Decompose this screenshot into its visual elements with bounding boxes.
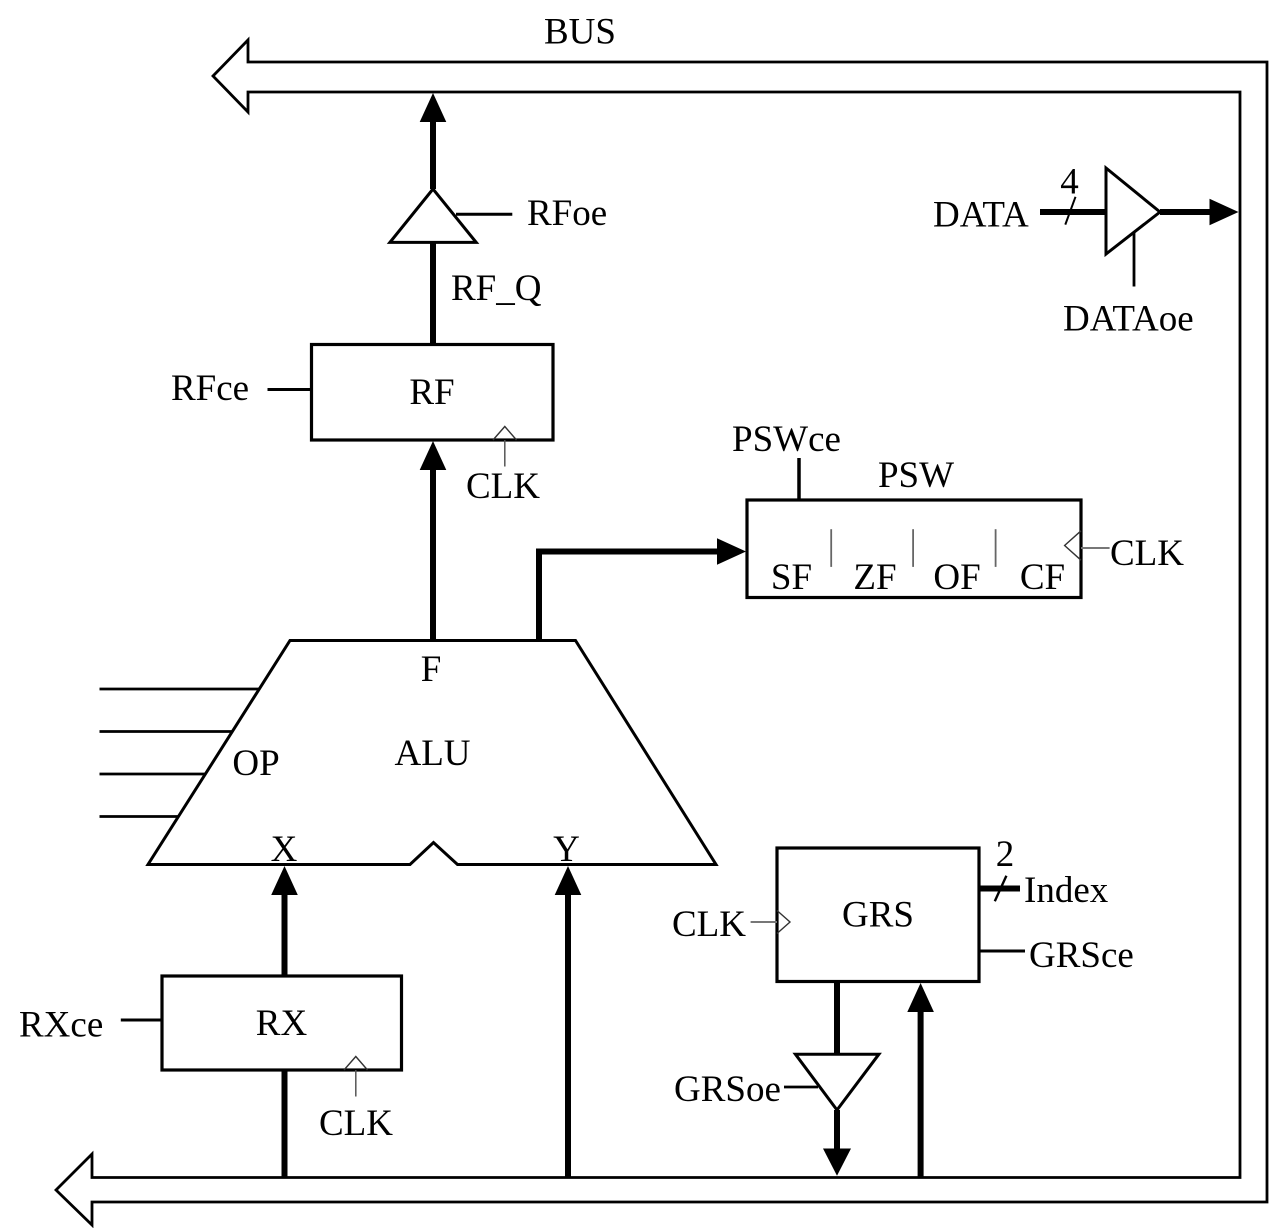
wire flags: ALU to PSW: [539, 552, 721, 641]
svg-text:RF: RF: [409, 372, 454, 413]
svg-text:RF_Q: RF_Q: [451, 268, 542, 309]
ALU trapezoid: [148, 641, 716, 865]
GRS CLK stub: [751, 921, 777, 923]
PSWce stub: [797, 458, 801, 500]
arrowhead into bus: [823, 1149, 851, 1176]
svg-text:CF: CF: [1020, 557, 1065, 598]
svg-text:CLK: CLK: [319, 1103, 393, 1144]
svg-text:RX: RX: [256, 1003, 308, 1044]
OP input line 2: [100, 730, 233, 733]
OP input line 1: [100, 688, 260, 691]
svg-text:PSW: PSW: [878, 455, 954, 496]
wire DATAoe buffer output to BUS: [1160, 209, 1212, 215]
tri-state buffer DATAoe: [1106, 168, 1160, 254]
svg-text:Index: Index: [1024, 870, 1109, 911]
register PSW: [747, 500, 1081, 598]
wire X: RX to ALU: [282, 891, 288, 976]
PSW bit divider 2: [912, 529, 914, 567]
RFce stub: [268, 388, 312, 391]
PSW clock wedge: [1065, 531, 1081, 560]
Index bus-width slash: [995, 876, 1007, 902]
svg-text:2: 2: [996, 834, 1015, 875]
svg-text:SF: SF: [771, 557, 812, 598]
svg-text:ALU: ALU: [394, 733, 470, 774]
wire Y: bus to ALU: [565, 891, 571, 1178]
svg-text:GRSoe: GRSoe: [674, 1069, 781, 1110]
tri-state buffer GRSoe: [795, 1054, 879, 1110]
RF clock wedge: [493, 427, 517, 441]
PSW bit divider 1: [830, 529, 832, 567]
svg-text:CLK: CLK: [672, 904, 746, 945]
RFoe enable stub: [456, 213, 512, 216]
arrowhead into ALU Y: [555, 866, 582, 895]
svg-text:4: 4: [1060, 162, 1079, 203]
svg-text:DATA: DATA: [933, 195, 1029, 236]
arrowhead into GRS: [907, 983, 934, 1012]
register file GRS: [777, 848, 979, 982]
GRSce stub: [979, 950, 1025, 953]
svg-text:PSWce: PSWce: [732, 419, 841, 460]
RX clock wedge: [344, 1057, 368, 1071]
DATAoe enable stub: [1133, 232, 1136, 287]
register RX: [162, 976, 402, 1070]
svg-text:F: F: [421, 649, 442, 690]
svg-text:OP: OP: [232, 743, 279, 784]
wire RF_Q: RF to buffer: [430, 242, 436, 345]
svg-text:RFce: RFce: [171, 368, 249, 409]
wire GRS output to GRSoe buffer: [834, 982, 840, 1055]
arrowhead into BUS: [420, 93, 447, 122]
svg-text:GRSce: GRSce: [1029, 935, 1134, 976]
svg-text:RXce: RXce: [19, 1005, 103, 1046]
GRS clock wedge: [777, 911, 790, 934]
svg-text:BUS: BUS: [544, 12, 616, 53]
wire RFoe buffer output to BUS: [430, 118, 436, 189]
PSW bit divider 3: [995, 529, 997, 567]
GRSoe enable stub: [784, 1086, 818, 1089]
tri-state buffer RFoe: [390, 189, 476, 242]
DATA bus-width slash: [1065, 197, 1075, 225]
svg-text:RFoe: RFoe: [527, 193, 607, 234]
RX CLK stub: [355, 1070, 357, 1097]
RF CLK stub: [504, 440, 506, 467]
wire GRSoe buffer to bus: [834, 1110, 840, 1150]
svg-text:GRS: GRS: [842, 895, 914, 936]
wire GRS input from bus: [918, 1008, 924, 1178]
Index output wire: [979, 886, 1020, 892]
svg-text:DATAoe: DATAoe: [1063, 299, 1194, 340]
arrowhead into RF: [420, 441, 447, 470]
DATA input wire: [1040, 209, 1106, 215]
arrowhead into PSW: [717, 538, 746, 564]
wire RX input from bus: [282, 1070, 288, 1178]
PSW CLK stub: [1081, 547, 1110, 549]
svg-text:ZF: ZF: [853, 557, 896, 598]
svg-text:Y: Y: [553, 829, 580, 870]
wire F: ALU output to RF: [430, 466, 436, 641]
svg-text:X: X: [271, 829, 298, 870]
arrowhead into ALU X: [271, 866, 298, 895]
register RF: [312, 345, 554, 441]
RXce stub: [121, 1019, 162, 1022]
arrowhead into bus right side: [1210, 199, 1239, 225]
OP input line 4: [100, 815, 179, 818]
svg-text:CLK: CLK: [1110, 533, 1184, 574]
svg-text:OF: OF: [933, 557, 980, 598]
OP input line 3: [100, 773, 206, 776]
svg-text:CLK: CLK: [466, 466, 540, 507]
